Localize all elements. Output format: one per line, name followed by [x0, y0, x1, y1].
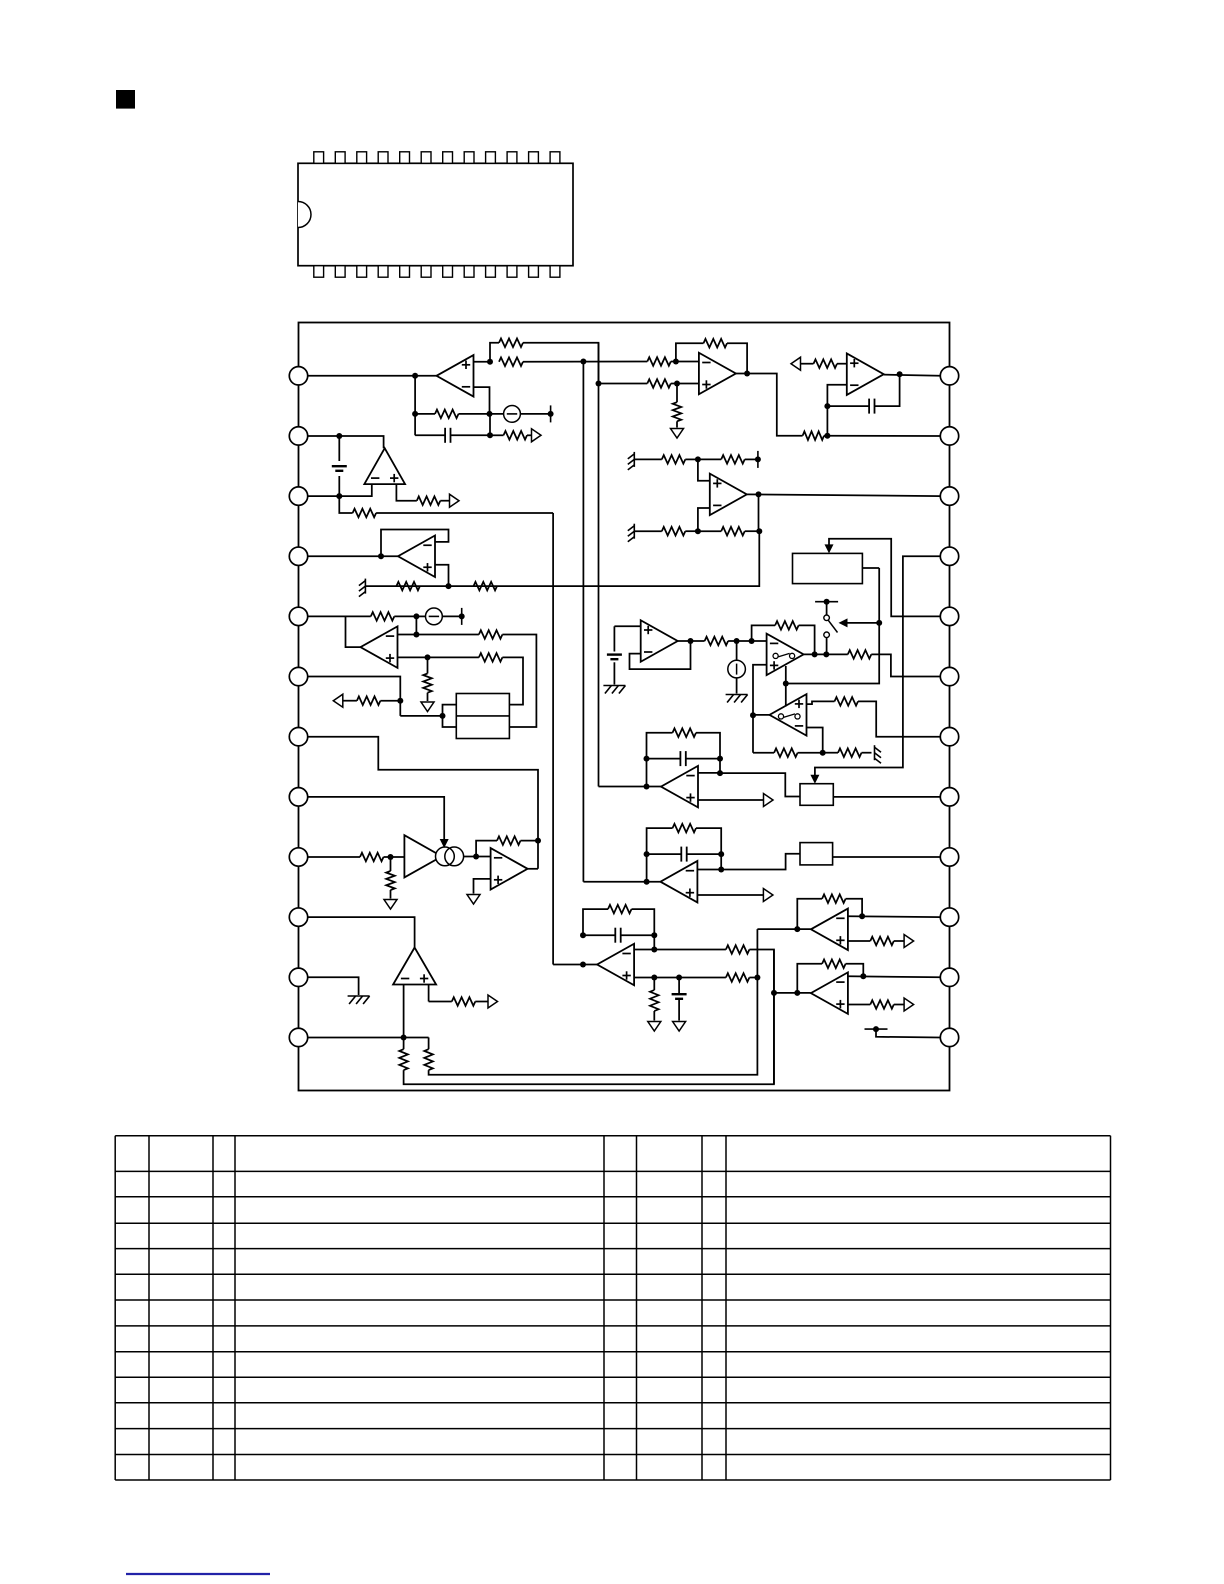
wire H2 to R13 [634, 530, 662, 532]
wire M1 to U12 [464, 856, 491, 858]
wire U8 - input [398, 616, 417, 634]
wire R45 right [696, 828, 721, 869]
resistor R37 [726, 945, 750, 954]
resistor R6 (U2 feedback) [704, 339, 728, 348]
pin 4 (left) [289, 547, 307, 565]
resistor R8 (to ground) [673, 402, 682, 421]
wire U2 feedback right [727, 343, 747, 373]
wire switch control [848, 622, 880, 624]
node U17 in [580, 962, 586, 968]
resistor R27 [835, 697, 859, 706]
wire U14 fb left vertical [647, 733, 673, 787]
wire R25 to U10 out [799, 625, 815, 654]
resistor R35 [424, 1049, 433, 1070]
wire C8 right lead [687, 853, 721, 855]
wire R3 to CM1 [459, 413, 504, 415]
pin description table grid [115, 1135, 1110, 1137]
capacitor C6 [614, 928, 616, 943]
wire R4 to arrow [527, 434, 532, 436]
pin 3 (left) [289, 487, 307, 505]
wire R14 to out node [745, 530, 760, 532]
wire U16 + output [848, 1004, 870, 1006]
wire U19 - to B4 [697, 854, 800, 870]
op-amp U11 (switched) [770, 694, 807, 736]
ground GND2 [421, 702, 434, 712]
node U3 fb left [824, 403, 830, 409]
wire R22 bottom lead [427, 693, 429, 701]
wire R2 to U2 - resistor [523, 361, 647, 363]
resistor R44 [452, 997, 476, 1006]
wire pin10 route [308, 917, 415, 947]
node U2 - [673, 359, 679, 365]
wire U15 - to pin 10R [848, 915, 940, 918]
wire C3 bottom lead [338, 476, 340, 496]
pin 13 (right) [940, 1028, 958, 1046]
resistor R29 [838, 748, 862, 757]
resistor R26 [848, 650, 872, 659]
resistor R10 [814, 359, 838, 368]
node pin1/feedback junction [412, 373, 418, 379]
wire R8 bottom lead [676, 421, 678, 427]
wire U2 output [736, 374, 803, 436]
capacitor C3 [332, 465, 347, 467]
wire R40 right [846, 899, 863, 917]
resistor R21 [479, 653, 503, 662]
wire R26 to pin 19 [871, 654, 940, 676]
resistor R14 [721, 527, 745, 536]
wire U10 output [804, 653, 848, 655]
wire U13 - vertical [403, 985, 405, 1037]
node U16 - [860, 973, 866, 979]
wire pin4 to U7 [308, 555, 398, 557]
wire R20 to block B1 lower [502, 635, 536, 728]
wire R35 to lower rail [429, 929, 758, 1075]
wire C8 left lead [647, 853, 682, 855]
signal arrow A2 [791, 357, 801, 370]
wire R39 bottom lead [653, 1011, 655, 1021]
wire U11 + route [807, 701, 835, 704]
pin8 control arrowhead [440, 839, 449, 848]
wire U1 - input [474, 387, 490, 414]
hatch ground H3 [364, 579, 366, 594]
wire U19 fb left vertical [647, 828, 673, 882]
wire R21 to block B1 upper [502, 657, 523, 704]
wire node to R29 [823, 752, 838, 754]
switch SW1 contacts & blade [824, 615, 830, 621]
node U4 + rail [695, 456, 701, 462]
wire U4 out down [758, 494, 760, 531]
node U8 - [413, 632, 419, 638]
wire U9 out to R24 [678, 640, 705, 642]
wire U3 out to pin 24 [884, 375, 941, 376]
hatch ground H1 [633, 452, 635, 467]
switch control arrowhead [839, 618, 848, 627]
signal arrow A7 [904, 998, 914, 1011]
pin 7 (left) [289, 728, 307, 746]
wire U14 - route [698, 772, 720, 774]
wire bus D to U16 [774, 992, 811, 994]
wire R19 to node [394, 615, 416, 617]
op-amp U4 [710, 474, 747, 516]
wire bus E to U15 [757, 928, 810, 930]
wire bus B to U19 input [583, 881, 660, 883]
wire U15 + output [848, 940, 870, 942]
node U14 in [644, 784, 650, 790]
resistor R34 [399, 1049, 408, 1070]
resistor R11 [662, 455, 686, 464]
wire R34 top lead [403, 1037, 405, 1049]
wire R37 to bus D [749, 950, 774, 1085]
node pin23 [824, 433, 830, 439]
wire R18 to bus C [376, 512, 553, 514]
wire C1 node up [489, 414, 491, 435]
wire R24 to U10 - [728, 640, 767, 642]
wire U17 - route [634, 949, 726, 951]
wire pin3 branch down [339, 496, 352, 513]
wire U4 output to pin 22 [747, 494, 941, 496]
op-amp U12 [491, 848, 528, 890]
wire R11 to node [685, 458, 698, 460]
wire U12 out [528, 868, 538, 870]
resistor R9 [803, 431, 824, 440]
pin 23 (right) [940, 427, 958, 445]
wire U8 + to R21 [428, 656, 479, 658]
node control tap [876, 620, 882, 626]
wire U14 - to B3 [720, 773, 800, 796]
wire U7 + input [435, 565, 449, 586]
wire R13 to node [685, 530, 698, 532]
node U17 + c [676, 975, 682, 981]
wire U11 - route [807, 728, 823, 753]
op-amp U10 (switched) [767, 634, 804, 676]
wire U7 feedback [381, 530, 449, 557]
signal arrow A3 [450, 494, 460, 507]
resistor R20 [479, 630, 503, 639]
wire C3 top lead [338, 436, 340, 461]
wire bottom rail left [753, 752, 774, 754]
wire bus B (pin1 net vertical) [582, 362, 584, 882]
resistor R15 [396, 582, 420, 591]
wire C6 right lead [621, 934, 655, 936]
resistor R22 [423, 674, 432, 693]
op-amp U16 [811, 972, 848, 1014]
wire U16 - to pin 11R [848, 976, 940, 977]
pin 15 (right) [940, 908, 958, 926]
section marker square [116, 90, 135, 109]
wire R44 to arrow [475, 1001, 488, 1003]
op-amp U17 [597, 944, 634, 986]
wire R32 bottom lead [390, 890, 392, 899]
wire pin1 to U1 input [308, 375, 437, 377]
resistor R4 [504, 431, 528, 440]
wire H1 to R11 [634, 458, 662, 460]
wire C1 row [415, 434, 445, 436]
wire C2 right lead [875, 374, 900, 406]
resistor R38 [726, 973, 750, 982]
terminal stub T3 [461, 608, 463, 625]
op-amp U2 [699, 353, 736, 395]
pin 19 (right) [940, 667, 958, 685]
node long-bus B tap [580, 359, 586, 365]
pin 22 (right) [940, 487, 958, 505]
node U4 output [756, 491, 762, 497]
node U4 out/rail [756, 528, 762, 534]
op-amp U15 [811, 909, 848, 951]
ground GND5 [648, 1022, 661, 1032]
wire pin2 right [308, 436, 384, 448]
node U8 + [425, 654, 431, 660]
signal arrow A6 [904, 935, 914, 948]
capacitor C2 [868, 399, 870, 414]
wire A4 to R23 [343, 700, 357, 702]
wire R41 to arrow [894, 940, 904, 942]
node bus D / U16 in [771, 990, 777, 996]
block B1 divider [456, 715, 509, 717]
current source CS1 [728, 660, 746, 678]
wire R5 to U2 - [671, 361, 699, 363]
wire pin21 route to B3 [815, 556, 940, 775]
node U2 + divider [674, 381, 680, 387]
pin 21 (right) [940, 547, 958, 565]
resistor R18 [353, 509, 377, 518]
wire R12 to stub [745, 458, 758, 460]
wire C1 to node [451, 434, 490, 436]
wire R23 to pin6 net [380, 700, 400, 702]
node U16 in [794, 990, 800, 996]
node U11 - divider [820, 750, 826, 756]
pin 11 (left) [289, 968, 307, 986]
wire U9 - feedback [630, 641, 691, 669]
wire R39 top lead [653, 978, 655, 991]
wire R33 to node [521, 840, 539, 842]
node U19 fb cap left [644, 851, 650, 857]
wire R35 top lead [428, 1037, 430, 1049]
wire pin12 [308, 1036, 429, 1038]
wire pin7 route [308, 737, 538, 869]
block B2 input arrowhead [825, 544, 834, 553]
wire CS1 stem [736, 641, 738, 660]
node pin5 net [413, 613, 419, 619]
wire R10 to U3 + [837, 363, 847, 365]
pin 1 (left) [289, 367, 307, 385]
source symbol G1 [504, 406, 521, 423]
wire R30 right [696, 733, 720, 773]
node U17 fb cap left [580, 932, 586, 938]
wire R27 to pin 18 [858, 701, 940, 736]
terminal stub T2 [757, 451, 759, 468]
wire R38 to bus E [749, 977, 757, 979]
wire pin5 to U8 out [346, 616, 362, 647]
pin 18 (right) [940, 728, 958, 746]
multiplier/mirror symbol M1 [436, 847, 455, 866]
wire U4 - input [698, 508, 710, 531]
resistor R12 [721, 455, 745, 464]
wire pin6 branch to B1 [400, 715, 442, 717]
chassis ground GH2 [726, 694, 748, 696]
wire R42 right [846, 964, 864, 976]
wire node A to R7 [599, 383, 648, 385]
wire U14 + output [698, 799, 764, 801]
node U2 output [744, 371, 750, 377]
block B3 input arrowhead [810, 775, 819, 784]
wire R4 leads [490, 434, 504, 436]
switch SW1 top contact [815, 601, 838, 603]
resistor R42 (U16 fb) [822, 960, 846, 969]
node U1 + input [487, 359, 493, 365]
wire C4 bottom lead [613, 662, 615, 684]
wire U4 out to y586 rail [365, 531, 759, 586]
resistor R40 (U15 fb) [822, 894, 846, 903]
wire U3 fb down to pin23 line [826, 406, 828, 436]
pin 2 (left) [289, 427, 307, 445]
node A (U2 +) [596, 381, 602, 387]
capacitor C5 [679, 751, 681, 766]
resistor R3 [435, 410, 459, 419]
wire C7 bottom lead [678, 1000, 680, 1021]
wire U10 + input [753, 665, 767, 753]
block B1 body [456, 694, 509, 739]
node CS1 tap [734, 638, 740, 644]
pin 24 (right) [940, 367, 958, 385]
node fb tap [749, 638, 755, 644]
hatch ground H4 [874, 745, 876, 760]
op-amp U7 [398, 536, 435, 578]
IC package pin-1 notch [298, 202, 311, 228]
wire R36 right [632, 909, 655, 949]
wire B3 right exit to pin 17 [833, 796, 940, 798]
wire R22 top lead [427, 657, 429, 673]
source symbol G2 [426, 608, 443, 625]
wire CS1 to ground [736, 678, 738, 694]
wire C7 top lead [678, 978, 680, 994]
node U11 out [750, 712, 756, 718]
capacitor C4 [607, 653, 622, 655]
wire to pin 23 [827, 435, 940, 437]
node U12 fb top [535, 838, 541, 844]
wire bus C to U17 [553, 964, 597, 966]
resistor R33 (U12 fb) [497, 836, 521, 845]
wire U12 + route [474, 879, 491, 894]
wire U13 + output branch [429, 1001, 452, 1003]
wire bus C vertical [552, 513, 554, 965]
node switch link [783, 681, 789, 687]
wire C4 top lead [613, 626, 615, 651]
op-amp U13 [393, 948, 436, 985]
pin 9 (left) [289, 848, 307, 866]
node U15 in [794, 926, 800, 932]
node U1 fb [412, 411, 418, 417]
footer link rule [126, 1573, 270, 1575]
wire C5 left lead [647, 758, 681, 760]
chassis ground GH3 [348, 995, 370, 997]
wire U3 - input [827, 385, 846, 406]
pin 17 (right) [940, 788, 958, 806]
signal arrow A1 [532, 429, 542, 442]
wire node to R14 [698, 530, 721, 532]
resistor R39 [650, 990, 659, 1011]
node U14 fb left [644, 756, 650, 762]
wire CM2 to stub [442, 615, 461, 617]
block B4 body [800, 843, 833, 865]
wire link to control [786, 568, 879, 684]
node bus E tap [754, 975, 760, 981]
wire U8 + input [398, 656, 428, 658]
wire U15 fb [797, 899, 822, 929]
wire pin9 lead [308, 856, 360, 858]
wire R43 to arrow [894, 1004, 904, 1006]
wire U1 + input [474, 361, 491, 363]
wire A2 to R10 [801, 363, 814, 365]
resistor R5 [647, 357, 671, 366]
node U19 - [718, 867, 724, 873]
op-amp U1 [437, 355, 474, 397]
wire U9 + input [614, 625, 640, 627]
resistor R13 [662, 527, 686, 536]
node U19 fb cap right [718, 851, 724, 857]
node U10 out switch [823, 651, 829, 657]
resistor R36 (U17 fb) [608, 905, 632, 914]
node U19 in [644, 879, 650, 885]
resistor R23 [357, 696, 381, 705]
wire U4 + input [698, 459, 710, 480]
ground GND6 [673, 1022, 686, 1032]
node pin4/fb [378, 553, 384, 559]
wire T4 to pin 13 [876, 1029, 940, 1037]
node U17 fb cap right [651, 932, 657, 938]
pin 20 (right) [940, 607, 958, 625]
node U7 + on rail [446, 583, 452, 589]
wire R17 to arrow [440, 500, 449, 502]
wire R1 branch up [490, 343, 499, 362]
wire node to R12 [698, 458, 721, 460]
wire U2 feedback left [676, 343, 704, 361]
wire U16 fb [797, 964, 822, 993]
wire SW1 bottom stem [826, 638, 828, 655]
IC package bottom pins 1..12 [314, 266, 324, 278]
capacitor C1 [444, 428, 446, 443]
wire B4 to pin 16 [833, 856, 941, 858]
op-amp U3 [847, 353, 884, 395]
wire node to CM2 [416, 615, 425, 617]
wire R28 to node [798, 752, 823, 754]
ground GND1 [671, 429, 684, 439]
ground GND4 [467, 895, 480, 905]
node pin2/C3 [336, 433, 342, 439]
resistor R28 [774, 748, 798, 757]
wire pin6 [308, 677, 401, 716]
node U15 - [859, 913, 865, 919]
wire B1 left bracket [443, 705, 457, 727]
wire U10/U11 switch link [785, 666, 787, 707]
node U10 out fb [812, 651, 818, 657]
wire CM1 to stub [520, 413, 550, 415]
wire U19 + output [697, 894, 763, 896]
terminal stub T1 [550, 405, 552, 422]
wire U17 fb loop [583, 909, 608, 935]
IC package top pins 24..13 [314, 152, 324, 164]
wire U11 output [753, 714, 770, 716]
IC package body (24-pin DIP) [298, 163, 573, 265]
wire R9 to pin23 node [824, 435, 827, 437]
wire SW1 top stem [826, 602, 828, 615]
terminal stub T4 [865, 1028, 888, 1030]
wire R1 to node A [523, 343, 599, 384]
node U17 - junction [651, 947, 657, 953]
wire C2 left lead [827, 405, 869, 407]
wire bus A vertical [598, 343, 600, 787]
signal arrow A8 [488, 995, 498, 1008]
wire U6 + output [396, 484, 416, 501]
